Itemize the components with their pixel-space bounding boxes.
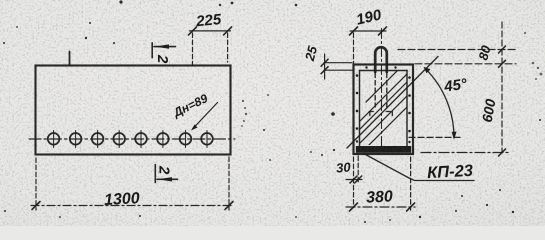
lifting loop (section) [375,47,387,72]
dimension 225 [189,11,232,65]
hole 5 [135,131,147,148]
section marker 2 (top) [152,43,175,64]
hole 4 [113,131,125,148]
rebar dots [356,66,411,143]
section inner wall right [406,71,408,147]
loop leg right (hidden) [386,73,388,107]
dimension 80 (vertical refs) [398,43,516,64]
dimension 25 (flange thickness) [302,44,353,79]
panel outline [36,66,231,155]
hole 7 [180,131,192,148]
bottom flange (filled) [356,146,411,153]
loop hook right [386,112,393,118]
section inner top [360,70,408,72]
label Dn=89 with leader [170,91,217,130]
section outer outline [354,65,414,155]
dimension 190 [350,6,387,63]
hole 2 [70,131,82,148]
holes centerline [29,138,235,140]
dimension 600 [421,22,509,156]
dimension 1300 [31,157,234,210]
section centerline [381,29,383,154]
dimension 30 [336,156,362,204]
hole 6 [157,131,169,148]
main 45deg reference diagonal [347,57,438,149]
loop leg left (hidden) [374,73,376,107]
section inner wall left [359,71,361,147]
hole 3 [92,131,104,148]
hole 8 [201,131,213,148]
hole 1 [48,131,60,148]
section marker 2 (bottom) [155,165,177,183]
loop hook left [369,112,376,118]
hatching [348,58,416,156]
45deg angle arc [409,67,469,140]
label KP-23 with leader [364,154,474,183]
lifting loop tick (side view) [69,52,71,66]
dimension 380 [346,157,415,211]
